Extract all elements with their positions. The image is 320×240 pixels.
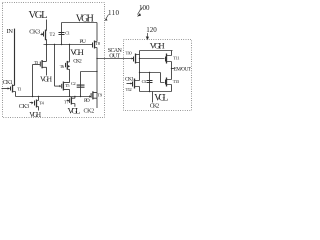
transistor T3 <box>33 64 40 66</box>
wire scan output column <box>96 48 98 99</box>
capacitor C1 <box>61 23 63 45</box>
svg-text:OUT: OUT <box>109 54 120 60</box>
wire T11 gate feed <box>140 58 165 60</box>
transistor T4 <box>34 101 36 106</box>
wire T3 gate column <box>32 65 34 97</box>
svg-text:VGH: VGH <box>70 47 84 57</box>
svg-text:120: 120 <box>146 26 157 34</box>
svg-text:T10: T10 <box>126 50 133 55</box>
svg-text:T13: T13 <box>173 79 180 84</box>
svg-text:100: 100 <box>139 4 150 12</box>
wire CK2 stub (box 120) <box>152 92 154 103</box>
node line (box 120) <box>140 72 161 74</box>
svg-text:VGH: VGH <box>76 14 94 25</box>
svg-text:T2: T2 <box>50 33 56 38</box>
wire PU column <box>54 45 56 87</box>
svg-text:CK2: CK2 <box>73 59 82 65</box>
svg-text:VGH: VGH <box>40 74 53 83</box>
svg-text:CK2: CK2 <box>84 108 95 114</box>
wire CK3 stub to T4 gate <box>30 102 32 104</box>
transistor T12 <box>132 82 134 87</box>
capacitor C2 <box>81 71 98 73</box>
svg-text:T8: T8 <box>95 41 101 46</box>
svg-text:T5: T5 <box>65 83 70 88</box>
transistor T9 <box>89 95 91 97</box>
svg-text:IN: IN <box>7 28 14 35</box>
svg-text:PU: PU <box>80 39 86 45</box>
svg-text:T3: T3 <box>34 60 39 65</box>
node SCAN OUT <box>97 58 134 60</box>
wire VGH rail 120 <box>140 50 173 52</box>
wire CK3 stub to T2 gate <box>41 34 43 36</box>
wire VGH top rail <box>62 22 98 24</box>
transistor T1 <box>10 87 12 91</box>
svg-text:T6: T6 <box>60 64 65 69</box>
wire CK1 stub to T12 gate <box>127 83 132 85</box>
svg-text:VGH: VGH <box>29 111 41 119</box>
transistor T2 <box>43 32 45 37</box>
transistor T11 <box>165 57 167 62</box>
node N2 line (bottom) <box>13 92 91 97</box>
svg-text:CK3: CK3 <box>19 104 29 110</box>
junction dots <box>32 44 172 98</box>
svg-text:T1: T1 <box>17 87 22 92</box>
wire EM output node <box>171 62 173 80</box>
svg-text:CK2: CK2 <box>150 104 160 110</box>
dashed box 120 <box>124 40 192 111</box>
svg-text:C1: C1 <box>65 31 70 36</box>
svg-text:T9: T9 <box>97 93 103 98</box>
svg-text:T11: T11 <box>173 55 180 60</box>
svg-text:110: 110 <box>108 9 120 17</box>
transistor T13 <box>161 73 165 83</box>
wire VGL to T2 <box>46 20 48 31</box>
svg-text:T4: T4 <box>39 100 44 105</box>
svg-text:PD: PD <box>84 98 90 104</box>
transistor T10 <box>132 58 134 60</box>
svg-text:VGL: VGL <box>68 106 81 116</box>
wire IN column <box>14 29 16 86</box>
wire CK2 to T6 stub <box>69 45 71 62</box>
dashed box 110 <box>3 3 105 118</box>
transistor T5 <box>55 85 60 87</box>
svg-text:VGL: VGL <box>29 10 48 21</box>
svg-text:VGH: VGH <box>150 41 165 51</box>
capacitor C3 <box>149 73 151 92</box>
transistor T8 <box>92 43 94 48</box>
wire CK1 stub to T1 gate <box>2 88 8 90</box>
wire bottom rail (box 120) <box>140 91 172 93</box>
svg-text:CK1: CK1 <box>3 80 13 86</box>
svg-text:VGL: VGL <box>154 94 168 104</box>
svg-text:CK3: CK3 <box>29 28 40 35</box>
svg-text:C2: C2 <box>71 81 76 86</box>
svg-text:C3: C3 <box>142 79 147 84</box>
wire T10 column <box>139 51 141 73</box>
node PU line <box>44 44 93 46</box>
svg-text:EM/OUT: EM/OUT <box>174 66 192 72</box>
svg-text:T12: T12 <box>126 87 133 92</box>
